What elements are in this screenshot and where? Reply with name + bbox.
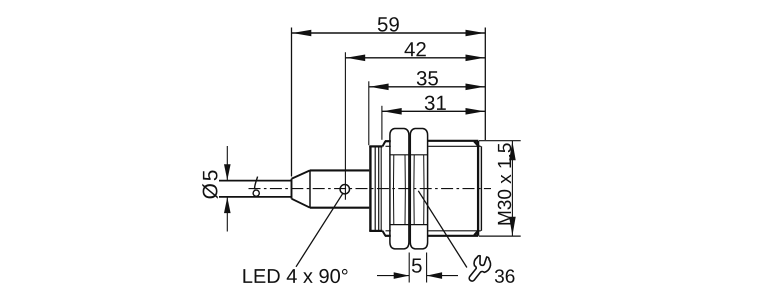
dimension 35 [369,86,486,88]
wrench size 36 [495,269,515,283]
extension line right reference [484,28,486,141]
LED label [243,269,347,283]
rear cylinder [310,169,369,171]
dimension D5 label [202,171,218,199]
wrench symbol [469,255,492,284]
dimension M30x1,5 [511,141,513,236]
cable break symbol [255,177,258,190]
clamp collar [369,146,371,231]
LED window circle [340,185,349,194]
centerline [249,188,492,190]
dimension D5 arrows [226,146,228,180]
extension line 42 [344,52,346,200]
hex nut 1 [390,129,409,249]
dimension 42 [345,57,485,59]
extension line 31 [381,106,383,140]
extension line 59 [291,28,293,177]
sensing face [477,141,479,236]
sensor cone [291,179,293,199]
extension line 35 [368,81,370,145]
dimension 59 [292,32,486,34]
threaded barrel [428,140,479,142]
dimension 31 [382,110,485,112]
LED leader line [296,193,343,267]
thread segment between collar and nut [385,140,391,142]
hex nut 2 [410,129,427,249]
cable [219,180,292,182]
extension lines nut width 5 [408,253,410,283]
wrench leader line [418,191,467,268]
dimension 5 [377,275,409,277]
extension lines M30 [479,140,521,142]
